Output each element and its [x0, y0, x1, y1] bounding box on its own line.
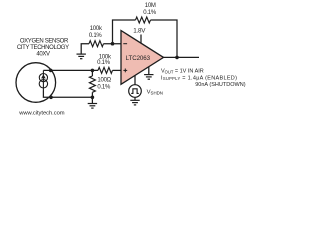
wire op-amp V- stub — [148, 67, 150, 75]
resistor R3 100k zigzag — [98, 67, 113, 73]
svg-text:VOUT = 1V IN AIR: VOUT = 1V IN AIR — [161, 69, 204, 75]
sensor terminal dot bottom — [49, 96, 53, 100]
ground G1 (R2 left) — [77, 54, 86, 59]
wire node C to ground stub — [91, 97, 93, 103]
svg-text:90nA (SHUTDOWN): 90nA (SHUTDOWN) — [195, 82, 246, 88]
wire feedback right vertical — [151, 20, 178, 57]
wire feedback left vertical — [113, 20, 136, 44]
svg-text:100Ω: 100Ω — [97, 78, 111, 84]
node A junction dot — [111, 42, 115, 46]
svg-text:VSHDN: VSHDN — [147, 90, 163, 96]
ground G3 (op-amp V-) — [144, 75, 153, 80]
Vshdn pulse source circle — [129, 85, 142, 98]
wire node B down lead — [91, 70, 93, 76]
svg-text:0.1%: 0.1% — [97, 84, 111, 90]
wire ground to R2 lead — [81, 44, 89, 54]
node C junction dot — [91, 96, 95, 100]
svg-text:100k: 100k — [90, 26, 103, 32]
sensor current source top circle — [39, 74, 47, 82]
resistor R4 100ohm zigzag — [89, 76, 95, 92]
svg-text:OXYGEN SENSOR: OXYGEN SENSOR — [20, 39, 69, 45]
oxygen sensor outer circle — [16, 63, 56, 103]
resistor R1 10M zigzag — [136, 17, 151, 23]
svg-text:ISUPPLY = 1.4μA (ENABLED): ISUPPLY = 1.4μA (ENABLED) — [161, 75, 237, 81]
wire op-amp SHDN stub to source — [134, 75, 136, 84]
svg-text:40XV: 40XV — [36, 52, 50, 58]
sensor current source arrowhead — [41, 74, 46, 78]
minus sign inverting input — [123, 43, 127, 45]
svg-text:0.1%: 0.1% — [97, 60, 111, 66]
svg-text:10M: 10M — [145, 3, 156, 9]
svg-text:0.1%: 0.1% — [89, 33, 103, 39]
svg-text:0.1%: 0.1% — [143, 10, 157, 16]
svg-text:LTC2063: LTC2063 — [126, 55, 151, 62]
wire sensor bottom to node C — [43, 91, 92, 98]
ground G2 (node C) — [88, 104, 97, 109]
svg-text:CITY TECHNOLOGY: CITY TECHNOLOGY — [17, 45, 69, 51]
wire R4 bottom lead to node C — [91, 92, 93, 97]
plus sign non-inverting input — [123, 69, 127, 71]
svg-text:www.citytech.com: www.citytech.com — [18, 111, 64, 117]
sensor inner current source shaft — [42, 70, 44, 90]
wire output — [163, 56, 200, 58]
sensor terminal dot top — [49, 69, 53, 73]
node B junction dot — [91, 69, 95, 73]
wire node A to op-amp inverting input — [104, 43, 122, 45]
resistor R2 100k zigzag — [89, 41, 104, 47]
output junction dot — [175, 56, 179, 60]
svg-text:1.8V: 1.8V — [133, 28, 146, 35]
wire source bottom to ground — [134, 97, 136, 100]
wire op-amp V+ stub 1.8V — [140, 35, 142, 44]
sensor current source bottom circle — [39, 80, 47, 88]
wire R3 to op-amp non-inverting input — [113, 69, 122, 71]
wire sensor top to node B to R3 — [43, 69, 98, 71]
op-amp U1 LTC2063 triangle — [121, 31, 164, 85]
ground G4 (shdn source) — [130, 100, 139, 105]
